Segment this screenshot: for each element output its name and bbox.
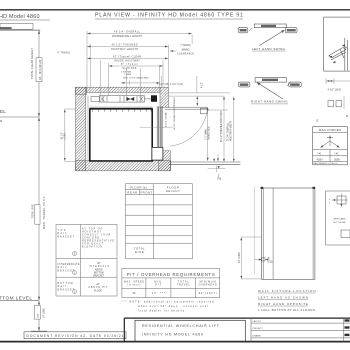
svg-text:RAIL: RAIL [58,232,68,235]
svg-text:92"(2337): 92"(2337) [199,291,217,295]
svg-text:12" ***: 12" *** [152,291,165,295]
svg-text:BOTTOM: BOTTOM [58,283,73,285]
svg-text:(ft/min): (ft/min) [127,283,140,286]
svg-text:MIN. TO 1/2" (MAX) WALL: MIN. TO 1/2" (MAX) WALL [123,76,150,79]
svg-text:MAX. TRAVEL 50 FT.: MAX. TRAVEL 50 FT. [42,196,46,229]
svg-text:SWING SIDE: SWING SIDE [209,126,211,140]
svg-text:RESIDENTIAL WHEELCHAIR LIFT: RESIDENTIAL WHEELCHAIR LIFT [142,324,220,328]
svg-text:DOCUMENT REVISION #2, DATE 04/: DOCUMENT REVISION #2, DATE 04/26/21 [27,334,124,338]
svg-text:PROJECT: PROJECT [253,328,264,330]
svg-text:1 HALL BUTTON AT ALL FLOORS: 1 HALL BUTTON AT ALL FLOORS [258,308,315,312]
svg-text:SLIM PAK: SLIM PAK [123,67,137,70]
svg-text:LEFT HAND AS SHOWN: LEFT HAND AS SHOWN [258,295,308,299]
svg-text:42" (1067): 42" (1067) [238,252,241,263]
svg-text:7' (SPAN): 7' (SPAN) [180,44,191,47]
svg-text:INTERVALS: INTERVALS [89,265,109,268]
svg-text:42 1/2" CLEAR DOOR OPENING: 42 1/2" CLEAR DOOR OPENING [173,97,176,130]
svg-text:local dealer for details: local dealer for details [138,309,185,313]
svg-text:RAIL: RAIL [58,266,68,269]
svg-text:ABOVE PIT: ABOVE PIT [89,286,109,289]
svg-text:7'-0" (MIN): 7'-0" (MIN) [205,129,207,140]
svg-text:4" TRAVEL: 4" TRAVEL [57,52,71,55]
svg-text:96" MINIMUM: 96" MINIMUM [38,60,42,80]
svg-text:BRACKET: BRACKET [58,288,75,291]
svg-text:6": 6" [268,258,270,260]
svg-text:RAIL WEIGHT = 25 lbs / ft: RAIL WEIGHT = 25 lbs / ft [314,162,339,165]
svg-text:FRONT: FRONT [140,191,152,195]
svg-text:REPRESENTATIVE: REPRESENTATIVE [82,240,114,243]
svg-text:426N: 426N [317,158,323,161]
svg-text:APPLICABLE: APPLICABLE [334,218,347,221]
svg-text:* #2: * #2 [334,153,339,156]
svg-text:48": 48" [97,263,101,265]
svg-text:PLAN VIEW - INFINITY HD Model: PLAN VIEW - INFINITY HD Model 4860 TYPE … [95,13,243,19]
svg-text:42 1/2" CLEAR: 42 1/2" CLEAR [164,112,167,127]
svg-text:HEIGHT: HEIGHT [166,189,180,193]
svg-text:14" (356): 14" (356) [43,308,46,318]
svg-text:42" (Typical) CLEAR: 42" (Typical) CLEAR [113,56,141,59]
svg-text:LAYOUT: LAYOUT [253,320,262,323]
svg-text:CLEARANCE: CLEARANCE [177,53,194,56]
svg-text:BRACKET: BRACKET [93,274,104,277]
svg-text:1 1/2" [38] 4 1/2" [114]: 1 1/2" [38] 4 1/2" [114] [157,84,183,86]
svg-text:RISE: RISE [135,250,144,254]
svg-text:DRAWN: DRAWN [253,334,262,337]
svg-text:8" (Typic): 8" (Typic) [121,63,138,66]
svg-text:PIT: PIT [155,283,162,286]
svg-text:[76]: [76] [217,178,221,181]
svg-text:(152): (152) [268,261,274,263]
svg-text:TOTAL CLEAR HEIGHT: TOTAL CLEAR HEIGHT [30,48,34,79]
svg-text:TRAVEL: TRAVEL [177,283,191,286]
svg-text:265N: 265N [334,158,340,161]
svg-text:HOISTWAY: HOISTWAY [82,231,101,234]
svg-text:1" MIN: 1" MIN [124,74,131,76]
svg-text:LEFT HAND SWING: LEFT HAND SWING [252,47,286,51]
svg-text:B: B [346,114,348,118]
svg-text:WALL FIXTURE LOCATION: WALL FIXTURE LOCATION [258,289,316,293]
svg-text:SWING: SWING [181,48,189,51]
svg-text:(1080): (1080) [65,133,67,140]
svg-text:AT TOP OF: AT TOP OF [82,228,103,231]
svg-text:PIT / OVERHEAD REQUIREMENTS: PIT / OVERHEAD REQUIREMENTS [127,272,215,277]
svg-text:BOTTOM: BOTTOM [94,273,104,275]
svg-text:BRACKET: BRACKET [58,235,75,238]
svg-text:CONSULT YOUR: CONSULT YOUR [82,235,110,237]
svg-text:50 3/4" OVERALL: 50 3/4" OVERALL [227,122,230,141]
svg-text:INTERMEDIATE: INTERMEDIATE [58,263,80,266]
svg-text:EL: EL [0,109,6,115]
svg-text:HOISTWAY WIDTH: HOISTWAY WIDTH [230,121,233,141]
svg-text:TOP: TOP [58,230,66,232]
svg-text:RIGHT HAND OPPOSITE: RIGHT HAND OPPOSITE [258,302,308,306]
svg-text:PIT: PIT [37,313,40,317]
svg-text:42 1/2": 42 1/2" [62,132,64,139]
svg-text:INFINITY HD MODEL 4860: INFINITY HD MODEL 4860 [142,333,203,337]
svg-text:RIGHT HAND SWING: RIGHT HAND SWING [251,100,288,104]
svg-text:CONCORD: CONCORD [82,238,99,240]
svg-text:*** NOTE: additional pit equ: *** NOTE: additional pit equipment requi… [122,299,215,303]
svg-text:when over 36" deep , consult y: when over 36" deep , consult your [138,304,208,308]
svg-text:REAR: REAR [127,191,137,195]
svg-text:TOTAL RISE: TOTAL RISE [32,204,35,219]
svg-text:FOR EXACT: FOR EXACT [82,243,104,246]
svg-text:* #1: * #1 [317,153,322,156]
svg-text:46 1/2" FINISHED HOISTWAY: 46 1/2" FINISHED HOISTWAY [220,110,223,142]
svg-text:HOISTWAY LENGTH: HOISTWAY LENGTH [111,48,138,51]
svg-text:FINISHED WALL LENGTH: FINISHED WALL LENGTH [112,35,142,38]
svg-text:RAIL FORCES: RAIL FORCES [319,128,341,132]
svg-text:24": 24" [96,284,100,286]
svg-text:E: E [317,119,319,123]
svg-text:NOT ONLINE: NOT ONLINE [333,222,346,224]
svg-text:ABOVE: ABOVE [95,268,103,271]
svg-text:ELEVATION: ELEVATION [82,246,102,249]
svg-text:HD Model 4860: HD Model 4860 [0,14,40,20]
svg-text:BRACKET: BRACKET [58,269,75,272]
svg-text:48 1/4" OVERALL: 48 1/4" OVERALL [114,31,141,34]
svg-text:RAIL: RAIL [58,285,68,288]
svg-text:46 1/2" FINISHED: 46 1/2" FINISHED [112,44,138,47]
svg-text:OVERHEAD: OVERHEAD [199,283,217,286]
svg-text:4 1/2": 4 1/2" [202,82,204,88]
svg-text:FLOOR No.: FLOOR No. [130,185,148,189]
svg-text:TTOM LEVEL: TTOM LEVEL [0,295,32,301]
svg-text:FLOOR: FLOOR [94,290,102,292]
svg-text:4 1/2" [114]: 4 1/2" [114] [328,88,341,92]
